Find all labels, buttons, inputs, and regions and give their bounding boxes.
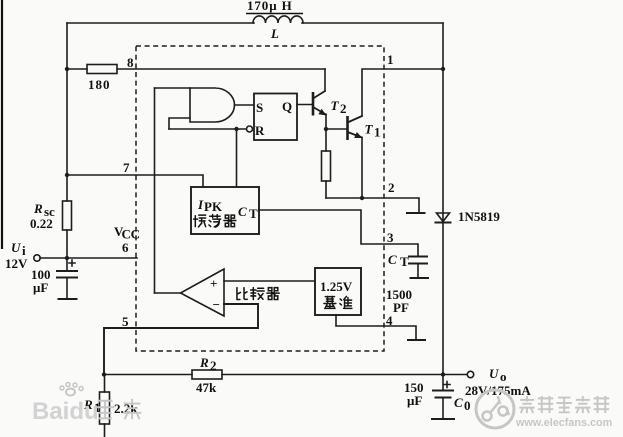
wire bottom feedback rail through R2 (104, 374, 467, 376)
wire AND output to S input (235, 104, 255, 106)
junction pin8 rail / left bus (65, 67, 69, 71)
wire top supply rail Vin to switch node (67, 22, 443, 24)
svg-text:Q: Q (282, 99, 292, 114)
comparator label (Chinese) (237, 288, 279, 300)
svg-text:C: C (454, 395, 463, 410)
svg-text:2: 2 (388, 180, 395, 195)
polarity plus sign C0 (444, 382, 450, 388)
IC MC34063 dashed boundary box (136, 46, 384, 351)
comparator triangle (181, 269, 225, 316)
svg-text:R: R (199, 355, 209, 370)
oscillator label (Chinese) (194, 215, 236, 228)
svg-text:47k: 47k (196, 380, 217, 395)
wire capacitor C0 to ground (442, 398, 444, 419)
junction R line / oscillator line (234, 127, 238, 131)
transistor T2 emitter stroke (313, 107, 326, 115)
junction pin7 line / left bus (65, 173, 69, 177)
svg-text:PF: PF (393, 300, 409, 315)
wire Q output to T2 base (297, 104, 313, 106)
junction pin6 line / left bus (65, 256, 69, 260)
svg-text:R: R (255, 123, 265, 138)
svg-text:1: 1 (374, 125, 381, 140)
junction T2 emitter / T1 base / resistor (324, 127, 328, 131)
svg-text:12V: 12V (5, 256, 28, 271)
svg-text:μF: μF (33, 280, 48, 295)
reference label (Chinese) (324, 296, 352, 308)
svg-text:4: 4 (386, 313, 393, 328)
oscillator block box (191, 187, 259, 234)
ground (pin 2) (407, 212, 425, 214)
transistor T1 emitter stroke (348, 132, 363, 138)
transistor T2 base bar (312, 92, 315, 116)
wire capacitor C1 to ground (66, 278, 68, 299)
svg-text:T: T (249, 206, 258, 221)
transistor T1 collector stroke (348, 116, 363, 123)
svg-text:3: 3 (387, 230, 394, 245)
wire AND top input from comparator (155, 87, 191, 89)
transistor T1 base bar (346, 116, 349, 140)
wire comparator output vertical (154, 88, 156, 293)
resistor (T2 emitter pulldown) body (322, 151, 331, 181)
resistor Rsc body (63, 201, 72, 230)
svg-text:170μ H: 170μ H (247, 0, 293, 13)
input terminal Ui circle (34, 255, 40, 261)
svg-text:5: 5 (122, 314, 129, 329)
inductor L 170uH coil (253, 16, 303, 23)
AND gate (190, 88, 235, 122)
ground (output cap) (432, 418, 454, 420)
wire emitter resistor leads (325, 129, 327, 198)
wire T1 collector to pin 1 and switch node (362, 69, 443, 116)
transistor T1 emitter arrow (354, 132, 362, 138)
resistor R1 body (100, 392, 110, 424)
junction T1 emitter / pin2 rail (360, 196, 364, 200)
svg-text:U: U (11, 240, 21, 255)
wire T2 emitter down (325, 115, 327, 130)
wire pin 4 reference to ground (336, 315, 416, 339)
svg-text:2: 2 (210, 358, 217, 373)
wire right output bus (442, 23, 444, 390)
ground (input cap) (59, 298, 77, 300)
svg-text:Baidu: Baidu (32, 398, 99, 425)
svg-text:+: + (210, 276, 217, 291)
resistor R2 body (192, 370, 222, 379)
svg-text:U: U (489, 366, 499, 381)
wire R input line (169, 128, 246, 130)
svg-text:T: T (400, 254, 409, 269)
capacitor CT 1500pF plates (409, 257, 427, 264)
SR latch box (254, 94, 297, 141)
svg-text:0: 0 (464, 398, 471, 413)
capacitor C0 150uF plates (433, 391, 453, 398)
wire pin 7 Ipk sense line (67, 175, 203, 187)
svg-text:0.22: 0.22 (30, 216, 53, 231)
svg-text:1: 1 (387, 52, 394, 67)
diode 1N5819 cathode bar (436, 222, 451, 224)
wire pin 2 to ground stub (326, 198, 419, 212)
wire T2 collector to pin8 rail (324, 69, 326, 91)
polarity plus sign C1 (69, 260, 75, 266)
watermark (decorative) (32, 383, 612, 430)
transistor T2 emitter arrow (318, 109, 326, 116)
svg-text:2: 2 (340, 101, 347, 116)
junction feedback rail / R1 (102, 372, 106, 376)
svg-text:1.25V: 1.25V (320, 279, 353, 294)
wire minus input to pin 5 feedback (104, 304, 258, 375)
wire plus input from 1.25V reference (224, 280, 315, 282)
junction pin1 wire / output bus (441, 67, 445, 71)
svg-text:7: 7 (123, 160, 130, 175)
output terminal Uo circle (467, 371, 473, 377)
wire T1 emitter down to pin2 rail (361, 138, 363, 199)
resistor 180 body (87, 65, 117, 74)
svg-text:I: I (197, 197, 204, 212)
wire left input bus (66, 23, 68, 271)
svg-text:o: o (500, 369, 507, 384)
capacitor C1 100uF plates (57, 271, 77, 278)
svg-text:R: R (33, 201, 43, 216)
wire pin 6 Vcc input line (40, 257, 137, 259)
svg-text:T: T (331, 98, 340, 113)
svg-text:180: 180 (88, 77, 111, 92)
svg-text:C: C (238, 204, 247, 219)
svg-text:PK: PK (204, 199, 223, 214)
inverter bubble at R input (247, 126, 253, 132)
svg-text:8: 8 (127, 55, 134, 70)
wire comparator output from apex (155, 292, 181, 294)
wire capacitor CT to ground (417, 264, 419, 278)
svg-text:μF: μF (407, 393, 422, 408)
svg-text:1N5819: 1N5819 (458, 209, 500, 224)
1.25V reference box (315, 268, 361, 315)
wire oscillator CT output to pin 3 (259, 210, 418, 256)
wire R line down to oscillator (236, 129, 238, 187)
ground (CT cap) (411, 277, 429, 279)
svg-text:−: − (213, 297, 220, 312)
wire AND lower input jog (169, 118, 190, 129)
wire T2 emitter to T1 base (326, 128, 348, 130)
svg-text:www.elecfans.com: www.elecfans.com (515, 417, 612, 429)
left page edge line (1, 0, 3, 249)
junction feedback rail / output bus (441, 372, 445, 376)
wire resistor R1 leads (104, 375, 106, 437)
svg-text:S: S (256, 100, 263, 115)
transistor T2 collector stroke (313, 91, 325, 99)
svg-text:6: 6 (122, 240, 129, 255)
diode 1N5819 triangle (437, 213, 450, 222)
svg-text:L: L (270, 26, 279, 41)
ground (pin 4) (408, 339, 425, 341)
svg-text:T: T (365, 122, 374, 137)
svg-text:C: C (388, 252, 397, 267)
wire pin 8 drive-collector rail (67, 68, 325, 70)
